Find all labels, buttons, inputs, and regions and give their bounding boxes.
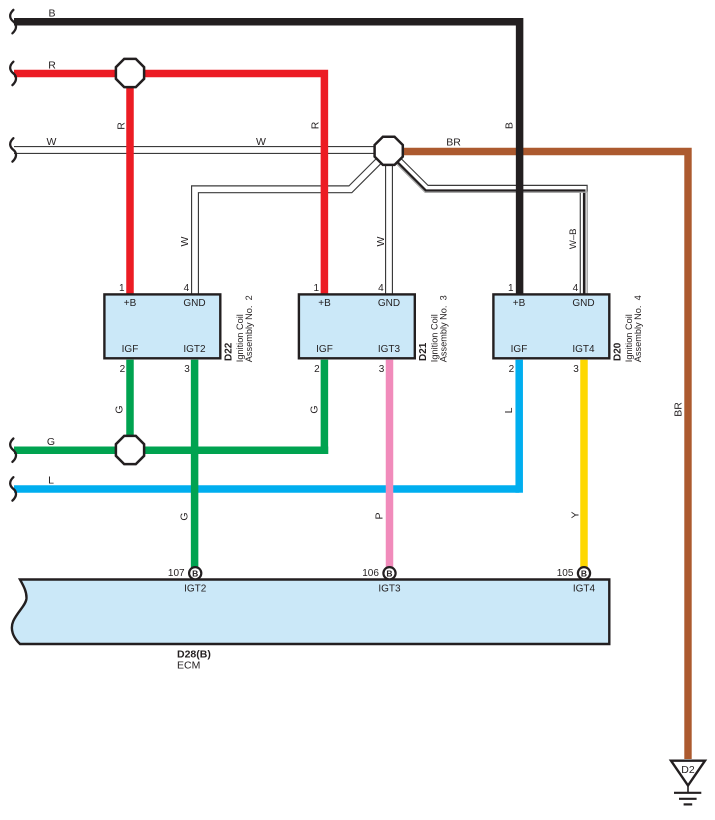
ECM box D28(B) bbox=[12, 580, 609, 645]
svg-text:+B: +B bbox=[124, 298, 137, 309]
svg-text:1: 1 bbox=[314, 283, 320, 294]
svg-text:BR: BR bbox=[673, 402, 685, 417]
svg-text:IGT2: IGT2 bbox=[184, 583, 207, 594]
svg-text:IGT4: IGT4 bbox=[573, 583, 596, 594]
svg-text:IGF: IGF bbox=[316, 344, 333, 355]
svg-text:G: G bbox=[114, 405, 126, 413]
ground D2 bbox=[671, 761, 705, 805]
svg-text:105: 105 bbox=[557, 568, 574, 579]
wire R junction to D22 +B bbox=[126, 84, 134, 294]
svg-text:Assembly No. 2: Assembly No. 2 bbox=[244, 295, 254, 362]
svg-text:+B: +B bbox=[513, 298, 526, 309]
wire W to D22 GND (diagonal, horizontal, vertical) bbox=[195, 161, 379, 294]
svg-text:IGT3: IGT3 bbox=[378, 344, 401, 355]
svg-text:GND: GND bbox=[572, 298, 594, 309]
svg-text:ECM: ECM bbox=[177, 660, 200, 672]
svg-text:W: W bbox=[179, 236, 191, 246]
wire P IGT3 from D21 to ECM bbox=[386, 360, 394, 568]
svg-text:W–B: W–B bbox=[568, 229, 579, 250]
svg-text:D21: D21 bbox=[418, 342, 429, 361]
ignition coil box D20 bbox=[493, 294, 609, 358]
connector circle B pin 106 bbox=[383, 567, 395, 579]
svg-text:4: 4 bbox=[573, 283, 579, 294]
ignition coil box D22 bbox=[104, 294, 220, 358]
svg-text:B: B bbox=[192, 568, 198, 578]
wire W-B black stripe bbox=[397, 162, 584, 294]
svg-text:1: 1 bbox=[508, 283, 514, 294]
svg-text:D20: D20 bbox=[613, 342, 624, 361]
svg-text:3: 3 bbox=[379, 364, 385, 375]
svg-text:R: R bbox=[116, 122, 128, 130]
svg-text:W: W bbox=[256, 136, 266, 148]
svg-text:IGT3: IGT3 bbox=[378, 583, 401, 594]
svg-text:IGF: IGF bbox=[511, 344, 528, 355]
svg-text:G: G bbox=[47, 436, 55, 448]
svg-text:3: 3 bbox=[184, 364, 190, 375]
svg-text:G: G bbox=[308, 405, 320, 413]
wire break symbol (R wire) bbox=[10, 62, 16, 85]
wire L vertical to D20 IGF bbox=[515, 360, 523, 493]
wire L horizontal bbox=[14, 485, 519, 493]
svg-text:B: B bbox=[581, 568, 587, 578]
wire break symbol (L wire) bbox=[10, 477, 16, 500]
svg-text:GND: GND bbox=[183, 298, 205, 309]
svg-text:L: L bbox=[48, 475, 54, 487]
svg-text:W: W bbox=[46, 136, 56, 148]
svg-text:BR: BR bbox=[446, 136, 461, 148]
svg-text:Assembly No. 4: Assembly No. 4 bbox=[633, 295, 643, 362]
svg-text:P: P bbox=[374, 512, 386, 519]
svg-text:W: W bbox=[375, 236, 387, 246]
svg-text:IGT4: IGT4 bbox=[572, 344, 595, 355]
svg-text:106: 106 bbox=[362, 568, 379, 579]
wire BR from junction to ground bbox=[400, 152, 688, 760]
svg-text:R: R bbox=[48, 59, 56, 71]
svg-text:D2: D2 bbox=[681, 764, 695, 776]
svg-text:4: 4 bbox=[184, 283, 190, 294]
svg-text:4: 4 bbox=[378, 283, 384, 294]
svg-text:G: G bbox=[179, 512, 191, 520]
svg-text:IGF: IGF bbox=[122, 344, 139, 355]
svg-text:R: R bbox=[309, 121, 321, 129]
svg-text:L: L bbox=[503, 407, 515, 413]
svg-text:B: B bbox=[48, 8, 55, 20]
connector circle B pin 107 bbox=[189, 567, 201, 579]
svg-text:Assembly No. 3: Assembly No. 3 bbox=[439, 295, 449, 362]
wire Y IGT4 from D20 to ECM bbox=[580, 360, 588, 568]
wire W-B to D20 GND bbox=[399, 161, 584, 294]
wire G IGT2 from D22 to ECM bbox=[191, 360, 199, 568]
svg-text:3: 3 bbox=[573, 364, 579, 375]
svg-text:B: B bbox=[504, 122, 516, 129]
svg-text:2: 2 bbox=[509, 364, 515, 375]
svg-text:1: 1 bbox=[119, 283, 125, 294]
wire break symbol (W wire) bbox=[10, 138, 16, 161]
wire G D22 IGF to junction bbox=[126, 360, 134, 438]
svg-text:2: 2 bbox=[314, 364, 320, 375]
svg-text:GND: GND bbox=[378, 298, 400, 309]
wire G D21 IGF vertical bbox=[321, 360, 329, 454]
junction octagon (R splice) bbox=[116, 59, 144, 87]
svg-text:Y: Y bbox=[570, 511, 582, 518]
wire W main horizontal bbox=[14, 146, 378, 154]
svg-text:+B: +B bbox=[318, 298, 331, 309]
wire B horizontal and vertical to D20 +B bbox=[14, 22, 520, 294]
ignition coil box D21 bbox=[299, 294, 415, 358]
connector circle B pin 105 bbox=[578, 567, 590, 579]
wire break symbol (B wire) bbox=[10, 10, 16, 33]
wire R horizontal to D21 +B bbox=[14, 74, 324, 295]
svg-text:D22: D22 bbox=[224, 342, 235, 361]
svg-text:2: 2 bbox=[120, 364, 126, 375]
wire W to D21 GND (vertical from junction) bbox=[385, 162, 393, 294]
wire break symbol (G wire) bbox=[10, 439, 16, 462]
junction octagon (W splice) bbox=[375, 137, 403, 165]
wire G horizontal bbox=[14, 447, 328, 455]
svg-text:IGT2: IGT2 bbox=[183, 344, 206, 355]
svg-text:107: 107 bbox=[168, 568, 185, 579]
junction octagon (G splice) bbox=[116, 436, 144, 464]
wire W-B gray outer edge bbox=[396, 163, 587, 294]
svg-text:B: B bbox=[386, 568, 392, 578]
